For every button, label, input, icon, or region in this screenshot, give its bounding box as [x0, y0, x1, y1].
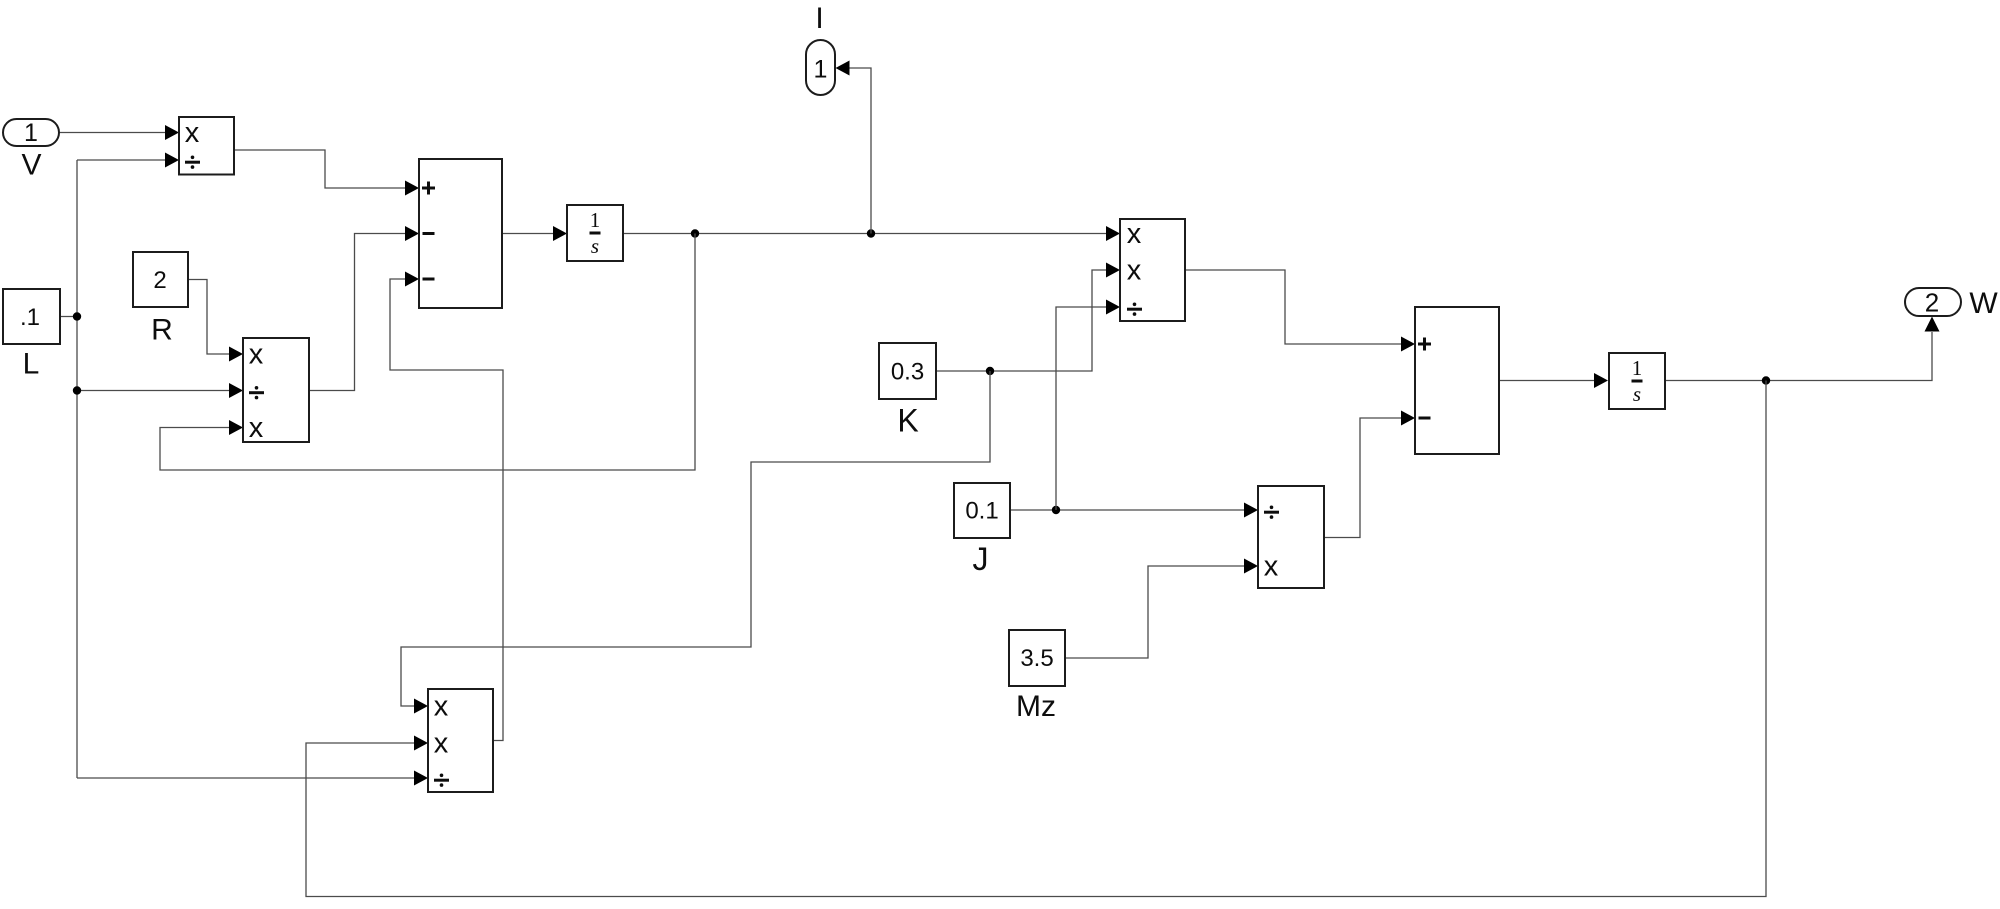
junction dot K output — [986, 367, 994, 375]
svg-text:2: 2 — [1925, 288, 1939, 318]
sum block S2 (plus minus) — [1415, 307, 1499, 454]
svg-text:1: 1 — [590, 208, 601, 232]
label J — [973, 541, 989, 577]
product block P2 (x, divide, x) — [243, 338, 309, 444]
label W — [1969, 287, 1998, 320]
svg-text:V: V — [21, 149, 41, 182]
svg-text:x: x — [1127, 254, 1142, 286]
product block P3 (x, x, divide) — [1120, 218, 1185, 321]
constant block L (.1) — [3, 289, 60, 344]
label Mz — [1016, 690, 1056, 723]
svg-text:K: K — [897, 403, 918, 439]
output port Out2 (W) — [1905, 288, 1961, 318]
constant block K (0.3) — [879, 343, 936, 399]
wire i to Out1 port I — [836, 61, 872, 234]
wire P2 output to S1 minus-input — [309, 226, 419, 391]
svg-text:0.1: 0.1 — [965, 498, 998, 525]
constant block Mz (3.5) — [1009, 630, 1065, 686]
svg-text:x: x — [185, 117, 200, 149]
svg-text:1: 1 — [814, 56, 828, 84]
svg-text:I: I — [815, 2, 823, 35]
wire In1 V to P1 x-input — [59, 125, 179, 140]
svg-text:s: s — [591, 234, 599, 258]
svg-text:x: x — [434, 690, 449, 722]
label I — [815, 2, 823, 35]
junction dot i to output I — [867, 229, 875, 237]
svg-text:x: x — [434, 727, 449, 759]
integrator block I2 (1/s) — [1609, 353, 1665, 409]
product block P5 (x, x, divide) — [428, 689, 493, 792]
wire P1 output to S1 plus-input — [234, 150, 419, 196]
junction dot L branch to P2 — [73, 386, 81, 394]
label R — [151, 314, 173, 347]
svg-text:s: s — [1633, 382, 1641, 406]
svg-text:3.5: 3.5 — [1020, 645, 1053, 672]
wire K to P3 x-input 2 — [936, 263, 1120, 372]
svg-text:Mz: Mz — [1016, 690, 1056, 723]
wire K branch to P5 x-input 1 — [401, 371, 990, 714]
junction dot i feedback — [691, 229, 699, 237]
svg-text:0.3: 0.3 — [891, 359, 924, 386]
constant block R (2) — [133, 252, 188, 307]
input port In1 (V) — [3, 119, 59, 147]
wire S1 output to I1 — [502, 226, 567, 241]
wire S2 output to I2 — [1499, 373, 1608, 388]
wire P5 output to S1 minus-input 2 — [390, 272, 503, 741]
junction dot J output — [1052, 506, 1060, 514]
svg-text:W: W — [1969, 287, 1998, 320]
wire I1 output to P3 x-input (current i) — [623, 226, 1120, 241]
svg-text:R: R — [151, 314, 173, 347]
svg-text:.1: .1 — [20, 304, 40, 331]
label K — [897, 403, 918, 439]
wire L distribution vertical — [60, 160, 77, 778]
svg-text:L: L — [23, 348, 40, 381]
svg-text:J: J — [973, 541, 989, 577]
product block P4 (divide, x) — [1258, 486, 1324, 588]
svg-text:1: 1 — [1632, 356, 1643, 380]
output port Out1 (I) — [806, 40, 835, 95]
product block P1 (x, divide) — [179, 117, 234, 175]
svg-text:x: x — [249, 412, 264, 444]
sum block S1 (plus minus minus) — [419, 159, 502, 308]
svg-text:x: x — [1127, 218, 1142, 250]
wire I2 output to Out2 port W — [1665, 317, 1940, 381]
wire P3 output to S2 plus-input — [1185, 270, 1415, 352]
integrator block I1 (1/s) — [567, 205, 623, 261]
wire i feedback to P2 x-input 3 — [160, 234, 695, 471]
svg-text:x: x — [249, 338, 264, 370]
constant block J (0.1) — [954, 483, 1010, 538]
junction dot w feedback — [1762, 376, 1770, 384]
wire R to P2 x-input — [188, 280, 243, 362]
wire J branch to P3 divide-input — [1056, 300, 1120, 511]
svg-text:x: x — [1264, 550, 1279, 582]
wire L to P5 divide-input — [77, 771, 428, 786]
svg-text:1: 1 — [24, 119, 38, 147]
label V — [21, 149, 41, 182]
wire L to P1 divide-input — [77, 153, 179, 168]
junction dot L output — [73, 312, 81, 320]
wire J to P4 divide-input — [1010, 503, 1258, 518]
wire Mz to P4 x-input — [1065, 559, 1258, 659]
wire P4 output to S2 minus-input — [1324, 411, 1415, 538]
wire w feedback to P5 x-input 2 — [306, 381, 1766, 897]
wire L to P2 divide-input — [77, 383, 243, 398]
svg-text:2: 2 — [153, 267, 166, 294]
label L — [23, 348, 40, 381]
